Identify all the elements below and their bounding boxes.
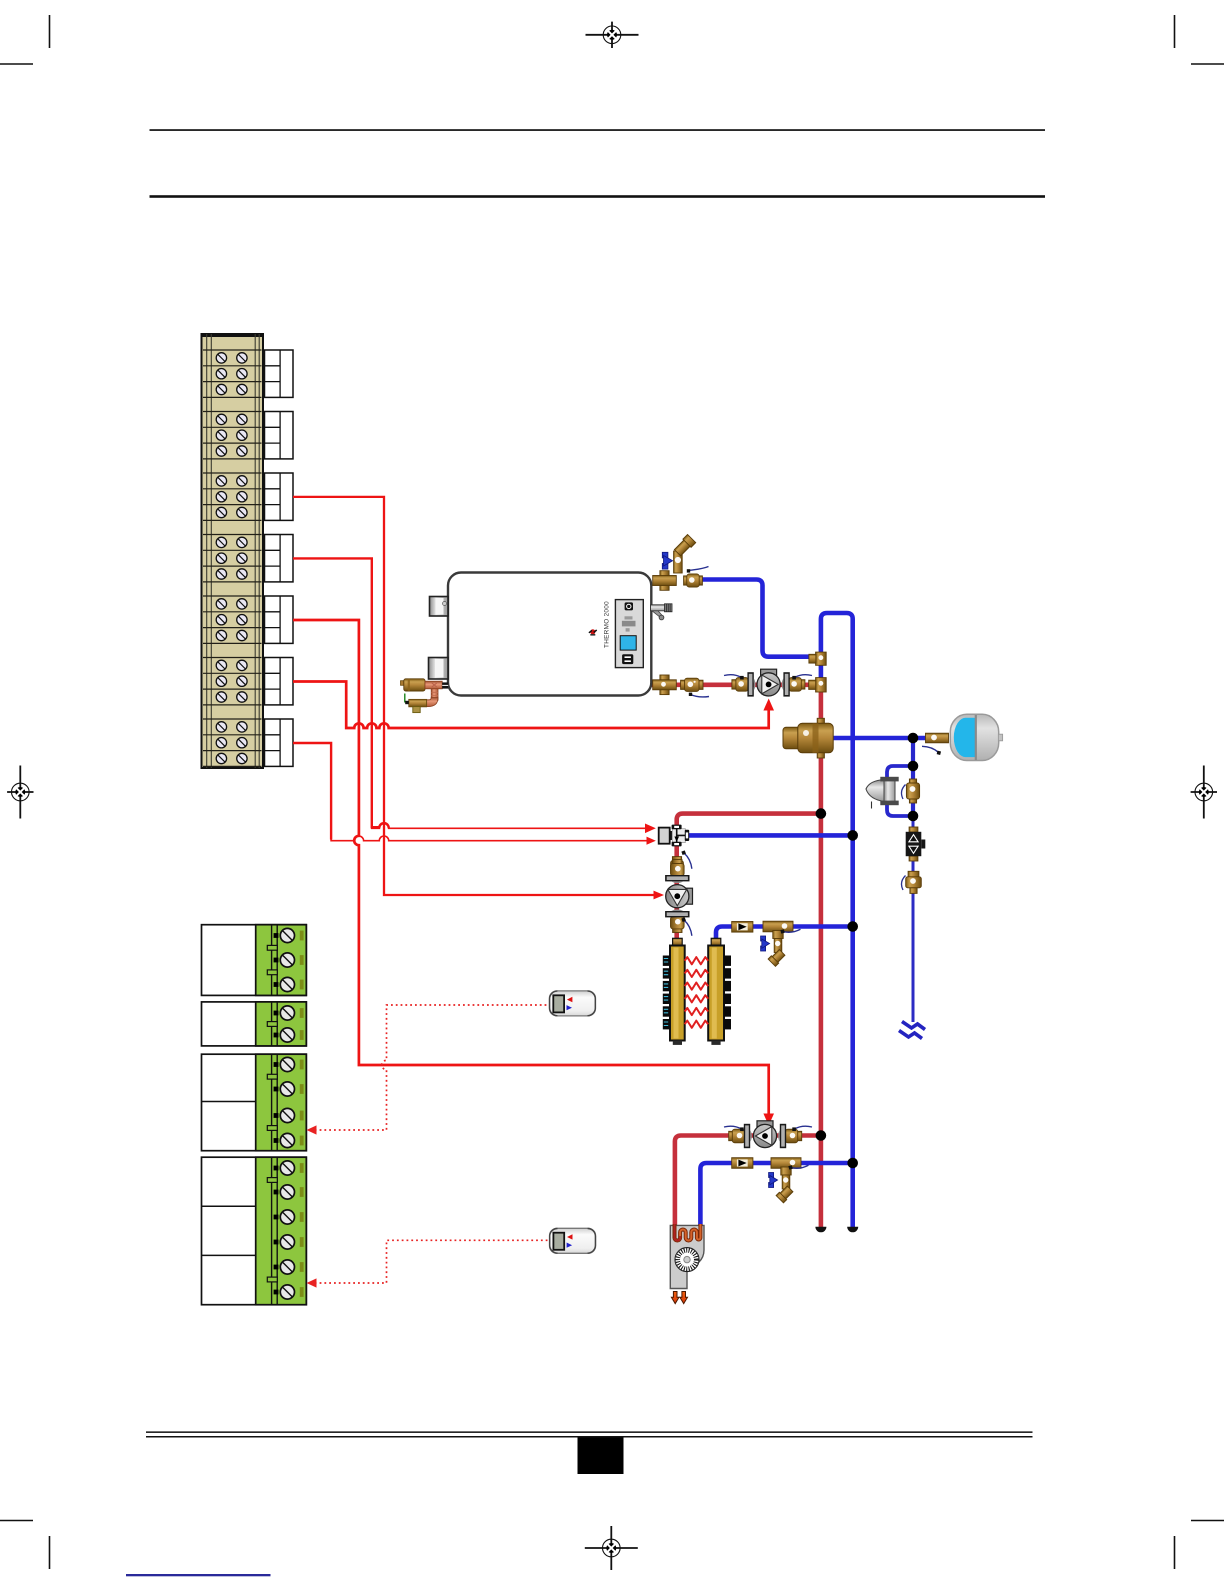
fan coil pump (flow left) bbox=[729, 1121, 802, 1148]
check valve on manifold return bbox=[732, 922, 753, 933]
footer double rule bbox=[146, 1431, 1033, 1433]
relay connector boxes bbox=[265, 350, 294, 397]
boiler pump sensor wires bbox=[724, 675, 744, 680]
crop mark bottom-left bbox=[0, 1521, 50, 1570]
PIPING bbox=[651, 580, 948, 1228]
relief valve copper drop pipe bbox=[431, 689, 438, 701]
relief valve copper tee bbox=[425, 681, 442, 689]
sensor wire at cold inlet union bbox=[687, 567, 709, 573]
green block group 3 (4 terminals) bbox=[202, 1054, 307, 1151]
fan coil heating coil bbox=[675, 1224, 701, 1240]
closely spaced tees: red supply tee bbox=[809, 678, 827, 692]
relief valve body bbox=[401, 681, 405, 686]
pipe blue fill line lower bbox=[912, 816, 915, 1022]
radiant floor pump (vertical) bbox=[665, 860, 692, 933]
thermostat 2 bbox=[550, 1228, 596, 1253]
zone valve with actuator bbox=[659, 825, 690, 847]
cold water supply break symbol bbox=[902, 1022, 925, 1030]
radiant manifold supply bar bbox=[670, 938, 685, 1045]
crop mark bottom-right bbox=[1175, 1521, 1224, 1570]
header rule thin bbox=[150, 129, 1046, 131]
pipe blue fill bypass loop bbox=[887, 766, 913, 816]
boiler control panel bbox=[615, 600, 643, 668]
air separator bbox=[783, 718, 833, 758]
fill valve lower bbox=[906, 871, 922, 893]
boiler body bbox=[448, 573, 651, 696]
manifold loop actuators left bbox=[663, 956, 670, 1030]
terminal strip (tan) bbox=[202, 334, 264, 768]
boiler brand logo bbox=[589, 629, 597, 635]
BOILER bbox=[429, 573, 673, 696]
ball valve blue handle bbox=[662, 552, 672, 569]
footer page-number black box bbox=[578, 1438, 624, 1475]
pipe blue air separator to expansion tank bbox=[831, 736, 948, 741]
registration target left-center bbox=[7, 766, 33, 819]
pipe blue fan coil return bbox=[700, 1163, 852, 1226]
footer-left blue underline bbox=[126, 1574, 271, 1576]
manifold loop stubs right bbox=[724, 956, 731, 1030]
crop mark top-left bbox=[0, 15, 50, 64]
pipe red boiler supply out bbox=[651, 682, 821, 687]
fan coil blower wheel bbox=[675, 1248, 699, 1272]
valve on fill line upper bbox=[906, 779, 919, 803]
CONTROL WIRES bbox=[293, 497, 769, 1114]
radiant manifold return bar bbox=[708, 938, 724, 1045]
boiler vent stub upper bbox=[430, 597, 449, 617]
relief valve inlet nipple bbox=[442, 682, 448, 688]
boiler side fitting bbox=[651, 604, 673, 620]
registration target top-center bbox=[586, 22, 639, 48]
junction dots bbox=[816, 733, 919, 1169]
pipe blue return riser bbox=[821, 613, 853, 1227]
crop mark top-right bbox=[1175, 15, 1224, 64]
registration target right-center bbox=[1191, 766, 1217, 819]
fan coil supply air arrows bbox=[671, 1292, 687, 1304]
boiler outlet cross fitting (hot) bbox=[653, 675, 677, 695]
header rule thick bbox=[150, 195, 1046, 198]
pipe red supply riser bbox=[819, 686, 824, 1227]
pipe red zone valve to radiant manifold bbox=[674, 844, 679, 942]
pipe red supply to fan coil pump bbox=[675, 1136, 821, 1227]
expansion tank bbox=[950, 714, 1002, 760]
relief valve drain body bbox=[409, 699, 427, 706]
dotted wire thermostat1 to green block 3 bbox=[310, 1005, 549, 1130]
pressure relief valve assembly bbox=[401, 679, 449, 713]
dotted wire arrowheads bbox=[307, 1125, 317, 1287]
wire relay3 to radiant pump bbox=[293, 497, 654, 895]
svg-text:THERMO 2000: THERMO 2000 bbox=[604, 601, 611, 648]
sensor wire at hot outlet union bbox=[689, 693, 709, 697]
radiant loops (red zigzags) bbox=[685, 957, 709, 1028]
dotted wire thermostat2 to green block 4 bbox=[310, 1240, 549, 1283]
arrow down at fan coil pump bbox=[763, 1114, 774, 1126]
green block group 4 (6 terminals) bbox=[202, 1157, 307, 1305]
closely spaced tees: blue return tee bbox=[809, 652, 826, 665]
thermostat dotted wires bbox=[310, 1005, 549, 1283]
cold inlet union bbox=[684, 574, 703, 587]
green block group 2 (2 terminals) bbox=[202, 1002, 307, 1046]
relief valve copper elbow bbox=[425, 698, 439, 707]
boiler loop pump bbox=[732, 669, 805, 696]
purge tee on fan coil return bbox=[769, 1158, 801, 1203]
union above radiant pump bbox=[671, 857, 684, 876]
registration target bottom-center bbox=[585, 1526, 638, 1570]
wire relay5 to fan coil pump bbox=[293, 620, 769, 1114]
arrow at zone valve lower bbox=[647, 837, 656, 845]
arrow at radiant pump bbox=[654, 891, 665, 900]
pipe red to zone valve bbox=[677, 814, 821, 827]
check valve on fan coil return bbox=[732, 1158, 753, 1169]
expansion tank nipple bbox=[926, 733, 949, 743]
pipe blue between closely spaced tees bbox=[819, 657, 824, 684]
45 deg fill elbow bbox=[673, 534, 695, 556]
arrow up at boiler pump bbox=[763, 699, 774, 711]
pipe blue fill line upper bbox=[911, 736, 915, 819]
purge tee on manifold return bbox=[761, 921, 793, 966]
fan coil unit body bbox=[670, 1224, 704, 1304]
pipe end cap blue riser bbox=[847, 1227, 858, 1233]
pipe blue zone valve return bbox=[688, 833, 853, 838]
boiler outlet union (hot) bbox=[681, 678, 703, 691]
expansion tank sensor wire bbox=[921, 746, 941, 755]
wire relay6 to boiler pump bbox=[293, 682, 769, 729]
wire relay4 to zone valve (upper) bbox=[293, 558, 389, 828]
backflow preventer bbox=[906, 827, 926, 861]
boiler inlet cross fitting (cold) bbox=[653, 571, 677, 591]
pipe end cap red riser bbox=[815, 1227, 826, 1233]
cold inlet vertical pipe with ball valve bbox=[662, 534, 695, 573]
arrow at zone valve upper bbox=[645, 824, 656, 834]
thermostat 1 bbox=[549, 991, 595, 1016]
wire relay7 to zone valve (lower) bbox=[293, 743, 331, 840]
automatic air vent on bypass bbox=[866, 777, 899, 809]
relief valve sensor wire bbox=[405, 694, 408, 702]
pipe blue boiler return inlet bbox=[702, 580, 821, 657]
pipe blue manifold return bbox=[716, 927, 853, 942]
boiler vent stub lower bbox=[429, 658, 449, 680]
wire arrowheads bbox=[645, 699, 774, 1126]
green block group 1 (3 terminals) bbox=[202, 925, 307, 996]
